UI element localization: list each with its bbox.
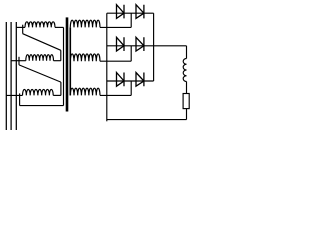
- wire: delta slant P2-left to P3-right: [19, 65, 61, 82]
- diode D3: [117, 37, 125, 51]
- wire: P2 right riser: [60, 50, 62, 60]
- wire: P3 right riser: [60, 82, 62, 95]
- wire: bridge midpoint riser row 1: [130, 13, 132, 27]
- wire: P2 right lead: [54, 60, 61, 62]
- inductor: transformer primary winding P2: [26, 55, 54, 61]
- wire: output drop to smoothing inductor: [186, 46, 188, 59]
- wire: bridge row 3: [107, 80, 154, 82]
- diode D2: [136, 5, 144, 19]
- wire: bridge right rail (DC+): [153, 13, 155, 81]
- wire: delta slant P1-left to P2-right: [23, 34, 61, 51]
- diode D6: [136, 73, 144, 87]
- wire: delta return under P3: [20, 105, 64, 107]
- resistor: load R: [183, 94, 189, 109]
- wire: primary 1 right lead: [55, 26, 64, 28]
- wire: resistor bottom to return rail: [186, 109, 188, 120]
- wire: bridge row 2 and DC+ output to filter: [107, 45, 187, 47]
- wire: P3 right lead: [53, 94, 61, 96]
- diode D4: [136, 37, 144, 51]
- wire: tap from L2 to primary winding 2: [11, 60, 26, 62]
- diode D5: [117, 73, 125, 87]
- wire: secondary 1 lead to bridge midpoint: [100, 26, 131, 28]
- inductor: transformer secondary winding S2: [70, 54, 100, 61]
- wire: three-phase supply bus line L2: [10, 22, 12, 130]
- wire: bridge midpoint riser row 2: [130, 46, 132, 61]
- inductor: smoothing choke L: [183, 59, 186, 82]
- node: primary 3 left stub: [19, 93, 21, 105]
- transformer core: [66, 17, 69, 111]
- node: primary 1 left stub: [22, 25, 24, 34]
- wire: tap from L3 to primary winding 1: [16, 26, 25, 28]
- wire: bridge row 1: [107, 12, 154, 14]
- wire: choke to load resistor: [186, 82, 188, 94]
- wire: delta link vertical from P1 right down core side: [63, 27, 65, 105]
- wire: secondary 2 lead to bridge midpoint: [100, 60, 131, 62]
- inductor: transformer secondary winding S3: [70, 88, 100, 95]
- inductor: transformer primary winding P1: [25, 22, 55, 28]
- wire: secondary star (common) line: [69, 27, 71, 95]
- wire: three-phase supply bus line L1: [5, 22, 7, 130]
- wire: tap from L1 to primary winding 3: [6, 94, 22, 96]
- wire: bridge left rail (DC-): [106, 13, 108, 121]
- wire: secondary 3 lead to bridge midpoint: [100, 94, 131, 96]
- diode D1: [117, 5, 125, 19]
- wire: bottom return rail: [107, 119, 187, 121]
- node: primary 2 left stub: [18, 57, 20, 65]
- wire: three-phase supply bus line L3: [15, 22, 17, 130]
- inductor: transformer secondary winding S1: [70, 20, 100, 27]
- inductor: transformer primary winding P3: [23, 89, 54, 95]
- wire: bridge midpoint riser row 3: [130, 81, 132, 95]
